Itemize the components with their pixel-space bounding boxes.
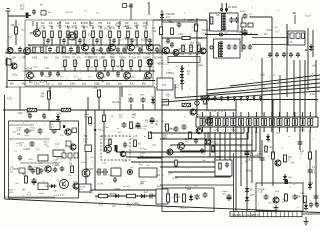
resistor R101 <box>183 194 186 202</box>
label right col2 <box>268 147 273 149</box>
value label <box>82 50 87 52</box>
wire <box>181 85 183 90</box>
capacitor C_t2 <box>62 38 66 44</box>
wire <box>48 99 50 110</box>
value label <box>23 71 27 73</box>
value label <box>9 36 13 38</box>
value label <box>152 145 157 147</box>
wire <box>8 15 25 17</box>
label edge <box>300 193 306 195</box>
dark blob part <box>127 169 132 174</box>
left border <box>4 95 6 199</box>
junction <box>75 44 77 46</box>
value label <box>10 83 15 86</box>
label <box>288 177 292 179</box>
wire <box>6 57 8 88</box>
small rect trio <box>62 153 78 158</box>
diode D9 <box>56 114 60 121</box>
capacitor C2 <box>18 47 22 53</box>
wire drop <box>154 87 156 110</box>
dark capacitor <box>115 145 118 152</box>
value label <box>12 74 18 77</box>
wire <box>127 38 129 46</box>
capacitor C20 <box>40 71 44 77</box>
junction <box>65 80 66 81</box>
diode D24 <box>266 134 270 141</box>
capacitor C67b <box>102 169 108 176</box>
svg-text:BC548: BC548 <box>87 169 95 171</box>
IC U1 pin box 10 <box>269 118 274 125</box>
svg-text:MERKL 1,2: MERKL 1,2 <box>157 64 169 66</box>
junction <box>29 52 30 53</box>
junction <box>149 70 151 72</box>
value label <box>108 40 112 42</box>
wire <box>59 27 61 29</box>
wire <box>196 90 198 97</box>
resistor R44 <box>98 90 101 97</box>
resistor R110 <box>272 152 275 159</box>
value label <box>95 197 99 199</box>
junction <box>136 44 138 46</box>
value label <box>73 181 77 183</box>
wire <box>196 18 198 44</box>
value label <box>138 50 145 52</box>
wire <box>145 27 147 29</box>
dashed amp box <box>101 136 130 160</box>
svg-text:BC548: BC548 <box>40 80 48 83</box>
value label <box>144 149 148 151</box>
wire drop <box>279 75 281 117</box>
label R10 value <box>116 23 122 28</box>
label C30 <box>128 95 132 97</box>
transformer T2 winding <box>219 42 223 57</box>
value label <box>276 132 281 135</box>
transistor Q39 <box>73 183 79 189</box>
IC U1 pin box 5 <box>231 118 236 125</box>
value label <box>56 114 62 116</box>
junction <box>77 52 78 53</box>
value label <box>246 170 252 173</box>
transistor Q1 <box>34 30 41 37</box>
resistor R98 <box>219 163 222 169</box>
label above box3 <box>96 13 100 15</box>
svg-text:2k2: 2k2 <box>223 27 227 30</box>
value label <box>52 165 57 167</box>
diode D2 <box>180 66 184 73</box>
junction <box>149 80 150 81</box>
value label <box>24 135 29 137</box>
transistor Q44 <box>200 48 206 54</box>
capacitor C91 <box>39 168 44 174</box>
value label <box>155 175 161 177</box>
svg-text:120p: 120p <box>130 77 136 79</box>
value label <box>176 196 181 199</box>
svg-text:7s ma: 7s ma <box>258 189 265 191</box>
resistor R32 <box>87 60 90 67</box>
value label <box>142 83 147 86</box>
IC U1 pin box 14 <box>300 118 305 125</box>
value label <box>84 40 88 42</box>
capacitor C60 <box>60 166 65 172</box>
value label <box>82 83 87 86</box>
capacitor C10 <box>91 47 95 53</box>
capacitor C8 <box>69 47 73 53</box>
wire <box>15 20 17 27</box>
label mid <box>157 64 169 66</box>
label +0s <box>56 180 59 182</box>
value label <box>55 144 60 146</box>
junction <box>93 52 94 53</box>
junction <box>145 44 147 46</box>
label KOLB <box>80 187 86 192</box>
value label <box>272 152 276 154</box>
resistor R38 <box>139 60 142 67</box>
svg-text:4u7 t6J: 4u7 t6J <box>123 185 130 188</box>
label R14 <box>11 24 16 27</box>
value label <box>55 164 60 167</box>
wire <box>100 38 102 46</box>
transistor Q9 <box>97 72 104 79</box>
svg-text:100n: 100n <box>62 57 68 59</box>
label R4 value <box>65 23 71 28</box>
value label <box>110 193 118 196</box>
wire <box>7 16 9 50</box>
capacitor C78 <box>166 38 171 44</box>
svg-text:7,1B: 7,1B <box>258 192 263 194</box>
wire <box>92 27 94 29</box>
wire <box>302 213 320 215</box>
wire <box>272 140 274 186</box>
value label <box>22 174 27 177</box>
label R8 value <box>98 23 103 28</box>
label +7J <box>89 190 94 195</box>
resistor R17 <box>41 47 43 53</box>
value label <box>117 67 121 69</box>
wire <box>307 28 309 90</box>
label output <box>258 189 265 194</box>
capacitor C15 <box>138 47 142 53</box>
value label <box>98 129 102 131</box>
junction <box>59 44 61 46</box>
wire <box>196 44 198 117</box>
junction <box>118 44 120 46</box>
wire <box>141 45 143 53</box>
svg-text:47u: 47u <box>130 83 135 86</box>
value label <box>36 149 40 151</box>
wire <box>162 37 207 39</box>
wire <box>84 44 86 46</box>
IC U1 pin stub 4 <box>225 112 227 132</box>
box 100u <box>139 168 157 177</box>
value label <box>75 63 79 65</box>
diode D11 <box>139 194 147 198</box>
wire <box>181 65 183 70</box>
value label <box>305 16 311 18</box>
resistor R34 <box>104 60 107 67</box>
svg-text:10n: 10n <box>55 57 60 60</box>
value label <box>101 80 106 83</box>
junction <box>117 52 118 53</box>
value label <box>60 40 64 42</box>
value label <box>57 158 65 160</box>
svg-text:8k2: 8k2 <box>248 158 253 161</box>
connector strip X1 <box>230 212 302 217</box>
wire <box>112 67 114 72</box>
value label <box>15 183 19 185</box>
value label <box>53 191 57 193</box>
capacitor C16 <box>155 47 159 53</box>
value label <box>146 165 150 167</box>
junction <box>133 52 134 53</box>
wire <box>130 44 132 46</box>
svg-text:F-10: F-10 <box>310 93 316 96</box>
value label <box>132 57 137 60</box>
junction <box>137 80 138 81</box>
label T1b <box>240 11 246 13</box>
value label <box>194 185 199 188</box>
junction <box>138 109 139 110</box>
wire <box>315 150 317 205</box>
svg-text:1k0: 1k0 <box>153 30 158 33</box>
svg-text:1n5: 1n5 <box>194 185 199 188</box>
svg-text:470R: 470R <box>115 189 121 191</box>
value label <box>274 191 280 193</box>
value label <box>78 78 83 81</box>
svg-text:470R: 470R <box>52 165 57 167</box>
wire <box>139 67 141 72</box>
label R30 <box>62 54 68 59</box>
svg-text:100n: 100n <box>46 77 52 79</box>
wire <box>67 38 69 46</box>
label C1 value <box>20 4 25 11</box>
value label <box>96 40 100 42</box>
capacitor C_t8 <box>112 38 116 44</box>
value label <box>212 141 216 143</box>
value label <box>152 195 156 197</box>
box 2.8 <box>157 78 173 90</box>
junction <box>101 52 102 53</box>
value label <box>69 164 74 166</box>
label U2 <box>289 42 294 44</box>
wire net R3 <box>170 127 252 145</box>
svg-text:1n5: 1n5 <box>55 144 60 146</box>
wire net G <box>240 132 242 186</box>
label R112 <box>300 151 305 156</box>
small rect br <box>19 168 25 173</box>
value label <box>109 27 115 30</box>
svg-text:BC548: BC548 <box>57 158 65 160</box>
wire <box>146 21 148 26</box>
value label <box>190 47 195 49</box>
IC U2 pin a <box>290 33 294 39</box>
label R90 <box>99 202 104 207</box>
value label <box>69 159 73 161</box>
IC U1 pin stub 6 <box>240 112 242 132</box>
value label <box>141 87 145 89</box>
svg-text:BC548: BC548 <box>110 193 118 196</box>
value label <box>214 143 219 145</box>
svg-text:100n: 100n <box>65 23 71 25</box>
wire drop <box>315 60 317 117</box>
svg-text:120p: 120p <box>246 170 252 173</box>
small part <box>241 23 246 27</box>
value label <box>96 50 102 52</box>
svg-text:BC548: BC548 <box>81 23 89 25</box>
junction <box>141 52 142 53</box>
value label <box>142 78 147 81</box>
wire <box>121 87 123 97</box>
value label <box>196 43 202 45</box>
capacitor C_t0 <box>46 38 50 44</box>
svg-text:108s: 108s <box>289 42 294 44</box>
svg-text:10n: 10n <box>180 67 185 70</box>
capacitor C83 <box>308 168 313 174</box>
transistor Q31 <box>70 144 76 150</box>
value label <box>168 128 174 131</box>
capacitor C39b <box>227 44 238 50</box>
value label <box>260 75 266 77</box>
capacitor C65 <box>123 142 127 148</box>
svg-text:47u: 47u <box>44 57 49 60</box>
value label <box>142 197 147 199</box>
junction <box>157 52 158 53</box>
label R35 <box>110 54 116 59</box>
value label <box>142 79 148 81</box>
svg-text:4n7: 4n7 <box>144 191 149 194</box>
value label <box>118 83 123 86</box>
label C42 <box>250 33 253 35</box>
IC U1 pin stub 11 <box>279 112 281 132</box>
svg-text:100k: 100k <box>32 57 38 60</box>
label +10s <box>175 85 181 90</box>
resistor R45 <box>160 27 163 35</box>
diode D23 <box>283 174 287 181</box>
label demod2 <box>182 46 186 48</box>
junction <box>125 52 126 53</box>
capacitor C67a <box>96 169 102 176</box>
value label <box>134 203 140 205</box>
transistor Q1b <box>68 32 76 40</box>
junction <box>48 109 179 111</box>
label above box4 <box>84 11 88 13</box>
svg-text:BC548: BC548 <box>85 57 92 59</box>
wire <box>111 44 113 46</box>
value label <box>16 143 20 145</box>
wire <box>95 195 156 197</box>
wire <box>121 67 123 72</box>
value label <box>166 93 171 96</box>
value label <box>145 67 149 69</box>
transistor Q4 <box>128 44 135 51</box>
value label <box>88 125 93 127</box>
value label <box>144 191 149 194</box>
wire stub top2 <box>148 2 150 15</box>
label R95 <box>161 121 164 123</box>
value label <box>198 64 203 67</box>
value label <box>40 73 44 75</box>
transformer T2 box <box>214 39 241 58</box>
label top cluster <box>48 12 52 14</box>
IC U1 pin stub 13 <box>294 112 296 132</box>
IC U1 pin box 3 <box>215 118 220 125</box>
wire net H <box>251 140 253 183</box>
wire <box>15 34 17 45</box>
label top <box>40 3 43 7</box>
bus <box>94 110 96 190</box>
label R13 value <box>143 23 148 28</box>
resistor R11 <box>127 31 130 38</box>
svg-text:470R: 470R <box>36 47 42 49</box>
label top small2 <box>147 3 150 6</box>
wire <box>271 17 273 57</box>
resistor R7 <box>92 31 95 38</box>
svg-text:100R: 100R <box>188 19 194 22</box>
value label <box>110 50 114 52</box>
resistor R8 <box>100 31 103 38</box>
svg-text:TR3: TR3 <box>180 54 185 56</box>
wire <box>104 67 106 72</box>
value label <box>133 135 138 138</box>
label C81 <box>255 155 260 157</box>
svg-text:SS14: SS14 <box>240 11 246 13</box>
svg-text:BC548: BC548 <box>24 130 32 133</box>
capacitor C50b <box>42 113 46 119</box>
IC U1 pin stub 14 <box>302 112 304 132</box>
value label <box>33 67 38 69</box>
capacitor C23 <box>106 71 110 77</box>
transistor Q42 <box>190 109 196 115</box>
value label <box>17 133 22 136</box>
antenna input socket J1 <box>6 9 11 17</box>
value label <box>312 204 316 206</box>
IC U1 pin stub 12 <box>286 112 288 132</box>
small box row <box>168 57 200 63</box>
connector pin 2 <box>208 97 210 101</box>
resistor R97 <box>175 160 178 166</box>
label D8 <box>150 96 154 98</box>
wire <box>153 19 207 21</box>
value label <box>211 116 215 118</box>
value label <box>216 14 221 17</box>
wire <box>20 162 60 164</box>
label R3 value <box>57 23 63 28</box>
svg-text:F-1B: F-1B <box>308 183 313 185</box>
value label <box>106 153 110 155</box>
resistor R96 <box>189 132 192 139</box>
IC U2 pin b <box>296 33 300 39</box>
IC U1 pin box 11 <box>277 118 282 125</box>
svg-text:100k: 100k <box>56 114 62 116</box>
wire <box>78 189 162 191</box>
svg-text:TR3: TR3 <box>139 183 144 185</box>
resistor R48 <box>190 45 193 52</box>
label R7 value <box>90 23 95 28</box>
wire <box>9 124 34 126</box>
svg-text:100n: 100n <box>124 37 130 40</box>
value label <box>141 39 149 42</box>
svg-text:470R: 470R <box>236 31 242 34</box>
junction <box>127 109 128 110</box>
junction <box>69 52 70 53</box>
wire <box>312 30 314 57</box>
label R37 <box>128 54 132 59</box>
label mid2 <box>185 139 190 144</box>
value label <box>48 40 53 42</box>
svg-text:41B: 41B <box>112 206 116 208</box>
wire <box>30 32 34 34</box>
value label <box>223 27 227 30</box>
label LC1F <box>83 139 89 144</box>
